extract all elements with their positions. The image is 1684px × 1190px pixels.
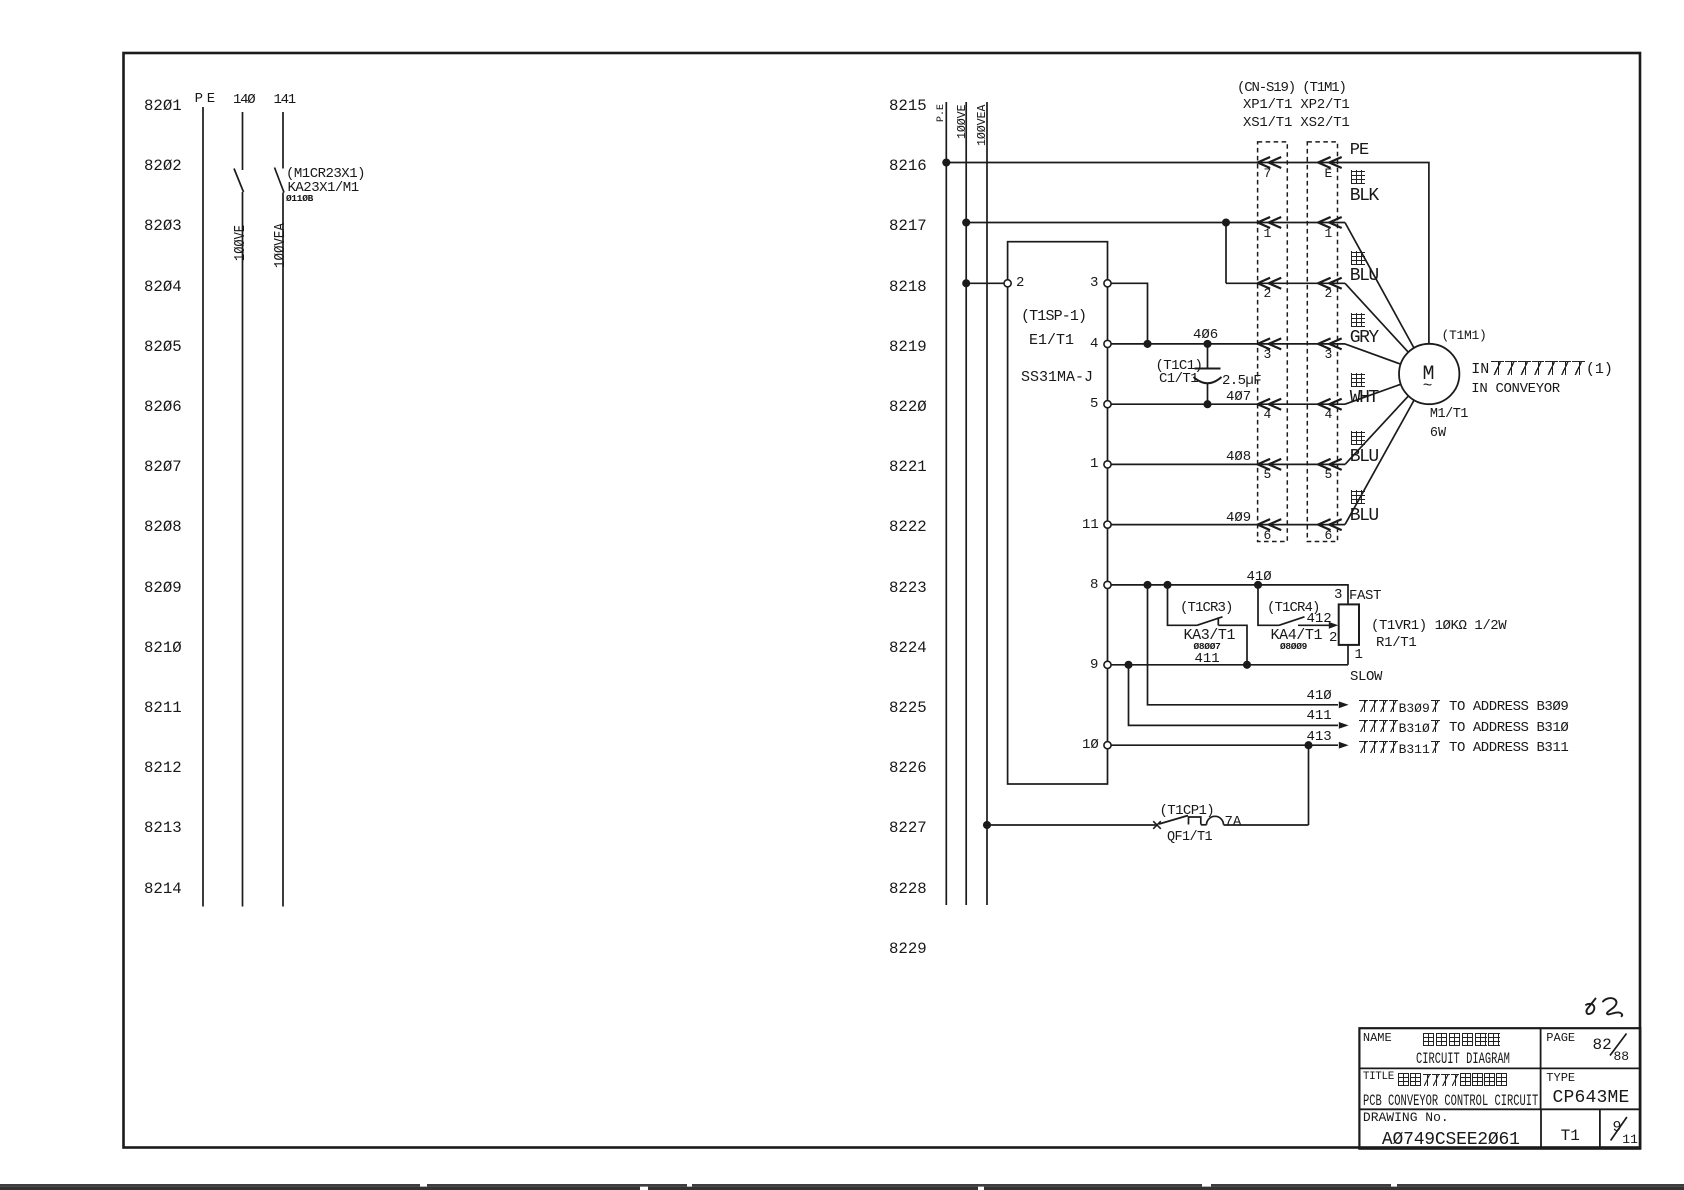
terminal 9 [1104, 661, 1111, 668]
pin 6 XP1 [1264, 528, 1272, 543]
wire color kanji grey [1351, 313, 1365, 332]
terminal 10 [1104, 742, 1111, 749]
node 8215 [889, 97, 927, 115]
box pin 5 [1090, 396, 1098, 412]
breaker QF1/T1 x mark [1153, 821, 1161, 829]
node label 408 [1226, 449, 1251, 465]
contact label KA23X1/M1 [288, 180, 359, 196]
wire row 8219 node 406 [1111, 343, 1345, 345]
node 8228 [889, 880, 927, 898]
node label 411 [1195, 651, 1220, 667]
junction node row 8217 branch [1223, 219, 1229, 225]
wire row 8222 node 409 [1111, 524, 1345, 526]
net label P.E right (rotated) [936, 103, 947, 121]
wire resistor pin 1 to row 9 [1347, 645, 1349, 665]
motor symbol M [1423, 363, 1435, 386]
node 8204 [144, 278, 182, 296]
capacitor C1/T1 2.5uF [1207, 344, 1209, 369]
net label 100VE left (rotated) [232, 224, 249, 260]
wire 100VE to terminal 2 [966, 282, 1004, 284]
pin 6 XP2 [1325, 528, 1333, 543]
node 8217 [889, 217, 927, 235]
resistor label FAST [1349, 588, 1381, 604]
junction 100VE / row 8217 [963, 219, 969, 225]
pin 3 XP1 [1264, 347, 1272, 362]
junction node 410 [1255, 582, 1261, 588]
wire 141 bus upper segment [282, 112, 284, 169]
node 8207 [144, 458, 182, 476]
wire row 8221 node 408 [1111, 463, 1345, 465]
node 8211 [144, 699, 182, 717]
motor M1/T1 circle [1399, 344, 1459, 404]
address label 410 [1307, 688, 1332, 704]
pin 5 XP2 [1325, 467, 1333, 482]
motor label (T1M1) [1442, 328, 1487, 343]
pin 1 XP1 [1264, 226, 1272, 241]
breaker label (T1CP1) [1160, 803, 1215, 819]
wire motor lead row 8217 [1345, 223, 1414, 349]
wire row 8218 to connector [1226, 282, 1345, 284]
wire color kanji blue 1 [1351, 251, 1365, 270]
pin 2 XP1 [1264, 286, 1272, 301]
resistor pin 3 [1334, 587, 1342, 603]
wire motor lead row 8222 [1345, 401, 1414, 525]
wire color BLU 3 [1350, 506, 1378, 526]
wiper arrow 412 to resistor [1298, 624, 1332, 626]
terminal 2 [1004, 280, 1011, 287]
breaker rating 7A [1225, 814, 1242, 830]
node 8221 [889, 458, 927, 476]
node 8223 [889, 579, 927, 597]
node label 409 [1226, 510, 1251, 526]
relay contact KA3/T1 [1168, 585, 1198, 625]
pin 2 XP2 [1325, 286, 1333, 301]
box pin 4 [1090, 336, 1098, 352]
connector header (CN-S19) (T1M1) [1237, 80, 1346, 96]
breaker QF1/T1 magnetic element arc [1207, 816, 1224, 825]
wire row 9 node 411 [1111, 664, 1348, 666]
resistor pin 2 [1329, 630, 1337, 646]
node 8229 [889, 940, 927, 958]
relay contact KA4/T1 [1258, 585, 1279, 625]
connector pins chevrons XP2 side [1318, 157, 1342, 530]
net label 100VEA left (rotated) [272, 223, 289, 268]
pin 5 XP1 [1264, 467, 1272, 482]
box pin 3 [1090, 275, 1098, 291]
wire 100VEA to breaker QF1/T1 [987, 824, 1156, 826]
relay label KA3/T1 [1184, 627, 1236, 644]
node 8209 [144, 579, 182, 597]
wire 140 bus upper segment [242, 112, 244, 170]
pin 4 XP2 [1325, 407, 1333, 422]
wire terminal 3 jog down to node 406 row [1111, 283, 1147, 344]
net label 140 [233, 92, 254, 108]
wire 141 bus lower segment [282, 193, 284, 907]
box pin 10 [1082, 737, 1099, 753]
junction T3 jog on row 8219 [1144, 341, 1150, 347]
contact blade on line 140 [234, 169, 244, 193]
wire color kanji black [1351, 170, 1365, 189]
node 8225 [889, 699, 927, 717]
box label SS31MA-J [1021, 369, 1093, 386]
box label E1/T1 [1029, 332, 1074, 349]
wire color kanji white [1351, 373, 1365, 392]
terminal 3 [1104, 280, 1111, 287]
node 8222 [889, 518, 927, 536]
resistor pin 1 [1355, 647, 1363, 663]
net label 100VE right (rotated) [956, 104, 969, 139]
box pin 1 [1090, 456, 1098, 472]
node label 412 [1307, 611, 1332, 627]
node 8208 [144, 518, 182, 536]
contact KA23X1/M1 blade on line 141 [275, 168, 285, 193]
contact label 0110B [286, 193, 313, 204]
wire 100VEA bus right [986, 102, 988, 905]
capacitor label (T1C1) [1156, 358, 1203, 374]
connector pins chevrons XP1 side [1258, 157, 1282, 530]
junction 100VE / row 8218 [963, 280, 969, 286]
junction PE / row 8216 [943, 159, 949, 165]
node 8206 [144, 398, 182, 416]
wire color BLK [1350, 186, 1378, 206]
net label P E left [195, 91, 203, 107]
resistor value (T1VR1) 10KOhm 1/2W [1371, 618, 1506, 634]
relay label (T1CR4) [1267, 600, 1320, 616]
wire 140 bus lower segment [242, 192, 244, 907]
address text TO ADDRESS B309 [1359, 700, 1439, 716]
connector header XP1/T1 XP2/T1 [1243, 97, 1350, 113]
wire motor lead row 8218 [1345, 283, 1408, 352]
wire row 10 address 413 to B311 [1111, 744, 1338, 746]
node 8214 [144, 880, 182, 898]
relay label KA4/T1 [1271, 627, 1323, 644]
wire 100VE bus right [965, 102, 967, 905]
wire color BLU 2 [1350, 447, 1378, 467]
box pin 2 [1016, 275, 1024, 291]
junction CR3 branch [1164, 582, 1170, 588]
node 8216 [889, 157, 927, 175]
relay label 08009 [1280, 641, 1307, 652]
wire PE bus right [945, 102, 947, 905]
pin 1 XP2 [1325, 226, 1333, 241]
junction CR3 to node 411 [1244, 662, 1250, 668]
wire breaker to node 413 [1224, 824, 1309, 826]
relay label (T1CR3) [1180, 600, 1233, 616]
node 8226 [889, 759, 927, 777]
junction node 413 [1305, 742, 1311, 748]
terminal 1 [1104, 461, 1111, 468]
wire row 8223 node 410 [1111, 585, 1348, 605]
wire color BLU 1 [1350, 266, 1378, 286]
box pin 8 [1090, 577, 1098, 593]
node label 407 [1226, 389, 1251, 405]
terminal 11 [1104, 521, 1111, 528]
wire color WHT [1350, 388, 1378, 408]
node label 406 [1193, 327, 1218, 343]
node 8213 [144, 819, 182, 837]
resistor ref R1/T1 [1376, 635, 1417, 651]
motor name IN conveyor motor (1) [1471, 361, 1613, 378]
wire PE bus left [202, 107, 204, 907]
node 8224 [889, 639, 927, 657]
wire row 8220 node 407 [1111, 403, 1345, 405]
breaker ref QF1/T1 [1167, 830, 1212, 845]
node 8212 [144, 759, 182, 777]
address label 411 [1307, 708, 1332, 724]
address label 413 [1307, 729, 1332, 745]
resistor R1/T1 (T1VR1) body [1339, 604, 1359, 645]
wire motor lead row 8219 [1345, 344, 1400, 364]
wire row 8217 [966, 222, 1345, 224]
resistor label SLOW [1350, 669, 1382, 685]
connector box E1/T1 SS31MA-J [1008, 242, 1108, 784]
node 8220 [889, 398, 927, 416]
wire branch 8217 to 8218 [1225, 223, 1227, 284]
connector XP2/T1 XS2/T1 dashed box [1307, 142, 1337, 542]
pin 7 XP1 [1264, 166, 1272, 181]
terminal 8 [1104, 581, 1111, 588]
relay label 08007 [1194, 641, 1221, 652]
motor name IN CONVEYOR [1471, 381, 1560, 397]
wire motor lead row 8221 [1345, 396, 1408, 464]
junction node 406 [1204, 341, 1210, 347]
address text TO ADDRESS B311 [1359, 741, 1439, 757]
net label 100VEA right (rotated) [976, 105, 989, 146]
wire color kanji blue 3 [1351, 490, 1365, 509]
connector XP1/T1 XS1/T1 dashed box [1258, 142, 1288, 542]
wire color kanji blue 2 [1351, 431, 1365, 450]
box label (T1SP-1) [1021, 308, 1086, 325]
terminal 4 [1104, 340, 1111, 347]
node 8218 [889, 278, 927, 296]
breaker QF1/T1 thermal element [1189, 817, 1201, 825]
box pin 11 [1082, 517, 1099, 533]
capacitor label C1/T1 [1159, 371, 1198, 387]
motor power 6W [1430, 426, 1446, 441]
pin 4 XP1 [1264, 407, 1272, 422]
node 8201 [144, 97, 182, 115]
wire node 413 down to breaker row [1308, 745, 1310, 825]
node 8227 [889, 819, 927, 837]
wire color PE [1350, 141, 1368, 160]
junction 411 address branch [1125, 662, 1131, 668]
address text TO ADDRESS B310 [1359, 720, 1439, 736]
net label 141 [274, 92, 295, 108]
capacitor value 2.5uF [1222, 373, 1261, 389]
terminal 5 [1104, 401, 1111, 408]
node 8202 [144, 157, 182, 175]
node 8203 [144, 217, 182, 235]
node 8219 [889, 338, 927, 356]
wire address 411 to B310 [1129, 665, 1339, 726]
junction node 407 [1204, 401, 1210, 407]
pin 3 XP2 [1325, 347, 1333, 362]
node 8205 [144, 338, 182, 356]
junction 410 address branch [1144, 582, 1150, 588]
box pin 9 [1090, 657, 1098, 673]
contact label (M1CR23X1) [286, 166, 365, 182]
pin E XP2 [1325, 166, 1333, 181]
wire row 8216 PE to motor [946, 163, 1429, 345]
node 8210 [144, 639, 182, 657]
connector header XS1/T1 XS2/T1 [1243, 115, 1350, 131]
wire address 410 to B309 [1148, 585, 1339, 705]
node label 410 [1247, 569, 1272, 585]
motor ref M1/T1 [1430, 407, 1468, 422]
junction 100VEA / row 8227 [984, 822, 990, 828]
wire motor lead row 8220 [1345, 384, 1400, 404]
wire color GRY [1350, 328, 1378, 348]
breaker QF1/T1 blade [1159, 816, 1188, 825]
